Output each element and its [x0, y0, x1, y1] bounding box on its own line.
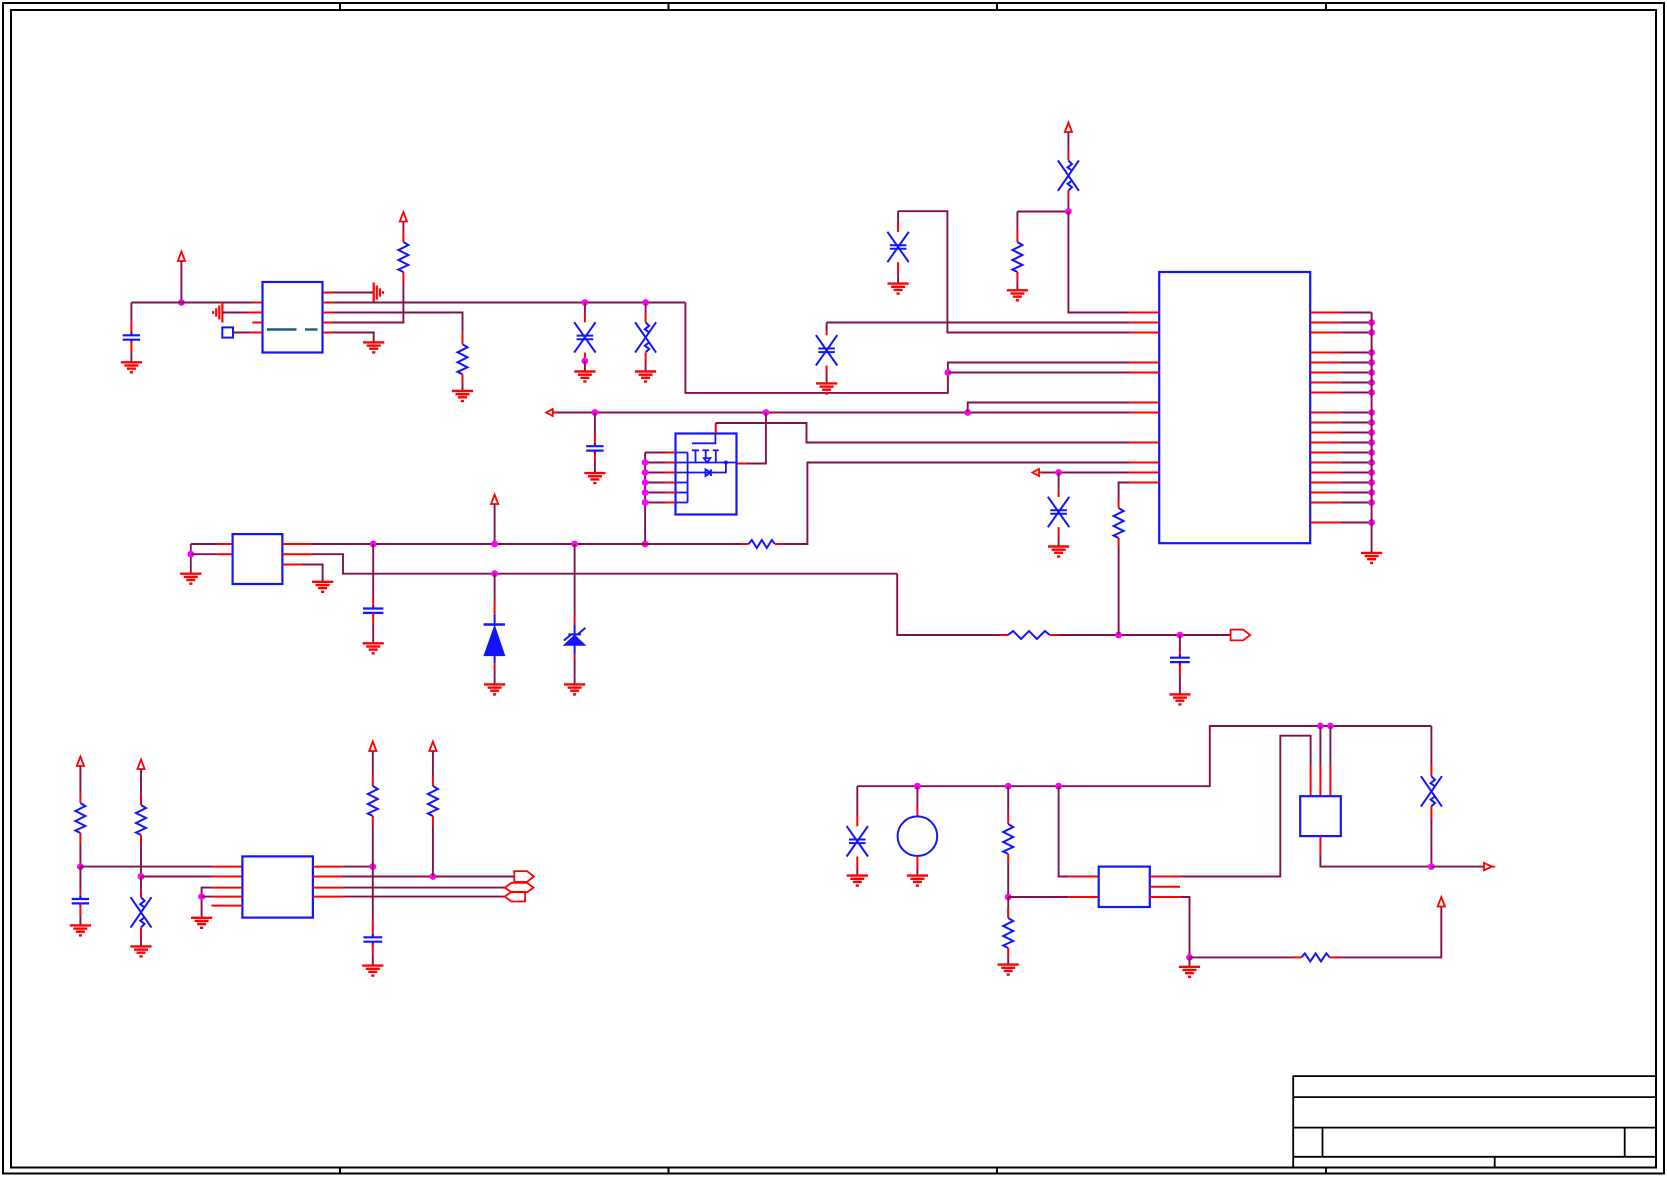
wire [79, 766, 81, 793]
wire [372, 955, 374, 965]
wire [1340, 372, 1371, 374]
node junction [1186, 954, 1193, 961]
wire Q1 left bus [644, 453, 646, 545]
node junction [1327, 723, 1334, 730]
ground [70, 925, 91, 935]
pin U6 right 2 [1310, 322, 1340, 324]
resistor R2 [462, 333, 464, 345]
wire [1340, 492, 1371, 494]
capacitor C1 [130, 322, 132, 334]
resistor R7 [79, 793, 81, 803]
pin U6 right 10 [1310, 422, 1340, 424]
wire [131, 302, 252, 304]
resistor R11 [1007, 814, 1009, 824]
pin U1.2 [247, 312, 263, 314]
wire net lower bus [312, 554, 897, 574]
frame zone tick top 1 [339, 3, 341, 10]
wire [584, 361, 586, 371]
wire [130, 352, 132, 362]
wire [333, 292, 374, 294]
pin U3.8 [313, 876, 343, 878]
node junction [1368, 329, 1375, 336]
node junction [763, 409, 770, 416]
wire [1180, 897, 1189, 957]
pin U2.2 [218, 553, 233, 555]
ground [180, 574, 201, 584]
ground [312, 582, 333, 592]
node junction [1055, 783, 1062, 790]
node junction [1368, 429, 1375, 436]
wire [1431, 866, 1482, 868]
wire [1059, 786, 1069, 876]
wire [574, 544, 576, 615]
ground [907, 876, 928, 886]
node junction [178, 299, 185, 306]
capacitor C4 not fitted [897, 222, 899, 232]
IC U5 [1300, 796, 1341, 836]
ground [1169, 694, 1190, 704]
IC U3 [242, 856, 313, 917]
ground [998, 965, 1019, 975]
node junction [642, 459, 649, 466]
node junction [1065, 208, 1072, 215]
pin U3.5 no-connect stub [212, 905, 243, 907]
title block [1293, 1076, 1656, 1167]
node junction [592, 409, 599, 416]
node junction [1317, 723, 1324, 730]
wire [1329, 726, 1331, 766]
node junction [642, 479, 649, 486]
wire [432, 751, 434, 776]
node junction [1005, 894, 1012, 901]
pin U1.8 [323, 292, 334, 294]
frame zone tick bottom 4 [1325, 1168, 1327, 1174]
node junction [430, 873, 437, 880]
pin U5.1 [1310, 766, 1312, 797]
wire [1340, 322, 1371, 324]
wire [79, 867, 81, 890]
node junction [491, 570, 498, 577]
wire [372, 544, 374, 599]
resistor R13 [1293, 956, 1302, 958]
node junction [1055, 469, 1062, 476]
power arrow VCC1 [178, 252, 185, 262]
wire [1179, 635, 1181, 650]
wire [1320, 856, 1431, 867]
IC U1 [263, 282, 323, 353]
IC U6 [1159, 272, 1310, 543]
IC U4 [1099, 867, 1150, 907]
pin Q1 s5 [645, 492, 665, 494]
pin U4.5 no-connect stub [1150, 886, 1180, 888]
input port flag C [505, 892, 525, 902]
wire [1017, 211, 1068, 213]
node junction [964, 409, 971, 416]
node junction [1115, 632, 1122, 639]
pin Q1 gate [715, 423, 717, 434]
pin U6 left 11 [1129, 482, 1159, 484]
wire [1430, 726, 1432, 766]
wire [594, 413, 596, 435]
wire [1189, 957, 1191, 966]
capacitor C14 not fitted [856, 816, 858, 826]
wire [1118, 547, 1120, 635]
wire [141, 876, 212, 878]
node junction [1368, 449, 1375, 456]
pin U3.3 [212, 887, 242, 889]
wire [827, 322, 1129, 324]
node junction [138, 873, 145, 880]
node junction [914, 783, 921, 790]
wire [79, 843, 81, 867]
capacitor C7 [594, 434, 596, 444]
transistor Q1 outline box [676, 434, 737, 515]
pin U5.3 [1329, 766, 1331, 797]
ground [635, 372, 656, 382]
wire [1058, 538, 1060, 546]
wire [1340, 452, 1371, 454]
frame zone tick top 2 [668, 3, 670, 10]
wire [140, 877, 142, 892]
frame zone tick bottom 1 [339, 1168, 341, 1174]
wire [333, 333, 374, 343]
wire [1180, 736, 1310, 877]
wire [1067, 201, 1069, 212]
node junction [1368, 519, 1375, 526]
wire net VDD bus [312, 543, 740, 545]
capacitor C8 [372, 599, 374, 609]
ground [584, 473, 605, 483]
wire [140, 938, 142, 946]
node junction [77, 863, 84, 870]
ground [1007, 290, 1028, 300]
ground [363, 643, 384, 653]
pin U3.2 [212, 876, 242, 878]
pin U1.5 [323, 322, 334, 324]
wire net VOUT bus [333, 302, 685, 304]
ground [847, 876, 868, 886]
pin U6 right 3 [1310, 332, 1340, 334]
wire [1179, 676, 1181, 694]
wire [897, 574, 1000, 635]
wire [494, 574, 496, 600]
wire [1058, 473, 1060, 491]
wire [1008, 896, 1068, 898]
pin U6 right 7 [1310, 382, 1340, 384]
wire [222, 312, 247, 314]
wire [856, 868, 858, 875]
wire [574, 660, 576, 684]
frame zone tick bottom 2 [668, 1168, 670, 1174]
wire [948, 372, 1129, 374]
pin U4.1 [1068, 876, 1099, 878]
power arrow VCC4 [491, 495, 498, 505]
pin Q1 s1 [645, 452, 665, 454]
pin Q1 s4 [645, 482, 665, 484]
node junction [1368, 369, 1375, 376]
diode D1 [494, 600, 496, 615]
ground [888, 284, 909, 294]
pin U1.6 [323, 312, 334, 314]
input port arrow [546, 409, 553, 416]
wire [372, 867, 374, 920]
resistor R3 [1016, 232, 1018, 242]
wire [140, 845, 142, 877]
wire [302, 565, 323, 582]
pin U6 right 16 [1310, 482, 1340, 484]
wire [494, 504, 496, 544]
node junction [1368, 319, 1375, 326]
node junction [369, 863, 376, 870]
wire [1340, 432, 1371, 434]
resistor R1 [402, 272, 404, 282]
wire [202, 896, 213, 898]
resistor R6 [1118, 538, 1120, 547]
wire [372, 826, 374, 867]
bom option box [222, 327, 233, 337]
pin U2.3 [282, 564, 302, 566]
wire net OSC bus [857, 726, 1431, 786]
ground [484, 684, 505, 694]
capacitor C2 not fitted [584, 313, 586, 322]
node junction [370, 541, 377, 548]
output port arrow [1482, 866, 1484, 868]
wire [1067, 132, 1069, 150]
IC U2 [233, 534, 283, 584]
wire [898, 211, 1129, 332]
wire [494, 670, 496, 684]
capacitor C10 not fitted [1058, 490, 1060, 497]
wire [1058, 634, 1231, 636]
wire [1007, 864, 1009, 897]
pin U3.6 [313, 896, 343, 898]
wire [343, 887, 505, 889]
wire [180, 261, 182, 303]
capacitor C12 not fitted [140, 891, 142, 897]
wire U6 right ground bus [1371, 313, 1373, 553]
wire [402, 222, 404, 233]
wire [968, 403, 1129, 413]
wire [1119, 483, 1129, 500]
ground [452, 391, 473, 401]
node junction [1368, 389, 1375, 396]
pin Q1 s2 [645, 462, 665, 464]
pin U6 left 1 [1129, 312, 1159, 314]
node junction [945, 369, 952, 376]
wire [191, 543, 218, 545]
wire [130, 303, 132, 322]
wire [1340, 332, 1371, 334]
pin U6 left 9 [1129, 462, 1159, 464]
wire [1340, 442, 1371, 444]
pin Q1 s3 [645, 472, 665, 474]
wire [1340, 412, 1371, 414]
pin U1.3 no-connect stub [252, 322, 262, 324]
wire [783, 463, 1129, 545]
pin U6 right 8 [1310, 392, 1340, 394]
wire [645, 303, 647, 314]
wire [1340, 522, 1371, 524]
pin U6 left 10 [1129, 472, 1159, 474]
pin U6 right 1 [1310, 312, 1340, 314]
wire [1340, 382, 1371, 384]
pin U3.9 [313, 866, 343, 868]
pin U1.1 [253, 302, 263, 304]
wire [1340, 362, 1371, 364]
pin U6 left 8 [1129, 442, 1159, 444]
pin U1.9 [323, 332, 334, 334]
ground [121, 362, 142, 372]
wire [916, 786, 918, 806]
U1 hidden text dashes [267, 328, 318, 330]
wire [826, 323, 828, 331]
pin U6 right 13 [1310, 452, 1340, 454]
wire [584, 303, 586, 314]
resistor R9 [372, 776, 374, 786]
wire [1007, 786, 1009, 814]
node junction [1005, 783, 1012, 790]
wire [333, 282, 403, 323]
wire [1340, 502, 1371, 504]
node junction [642, 469, 649, 476]
wire [191, 553, 218, 555]
pin U4.6 [1150, 876, 1181, 878]
node junction [1368, 459, 1375, 466]
wire [746, 413, 766, 464]
node junction [1368, 349, 1375, 356]
pin U4.2 [1068, 896, 1099, 898]
chassis ground left of U1 [213, 303, 222, 323]
wire [343, 866, 373, 868]
output port flag [1231, 630, 1251, 641]
power arrow VCC6 [137, 760, 144, 770]
pin U5.2 [1319, 766, 1321, 797]
wire [1430, 818, 1432, 867]
frame zone tick top 3 [996, 3, 998, 10]
pin Q1 drain [737, 463, 747, 465]
pin U3.4 [212, 896, 242, 898]
wire [333, 313, 463, 333]
pin U2.1 [218, 543, 233, 545]
pin U6 left 2 [1129, 322, 1159, 324]
ground [362, 966, 383, 976]
pin U6 right 17 [1310, 492, 1340, 494]
node junction [198, 893, 205, 900]
wire [1190, 956, 1293, 958]
wire [1340, 462, 1371, 464]
resistor R4 [741, 543, 749, 545]
pin U6 left 4 [1129, 362, 1159, 364]
wire [1340, 392, 1371, 394]
ground [564, 684, 585, 694]
resistor R8 [140, 795, 142, 805]
wire [594, 461, 596, 473]
power arrow VCC7 [369, 742, 376, 752]
output port flag A [514, 871, 534, 882]
pin U1.7 [323, 302, 334, 304]
node junction [1177, 632, 1184, 639]
capacitor C6 not fitted [826, 330, 828, 335]
pin U2.5 [282, 543, 312, 545]
node junction [1368, 439, 1375, 446]
pin U3.7 [313, 887, 343, 889]
wire [826, 373, 828, 383]
wire [1339, 907, 1442, 958]
power arrow VCC5 [77, 757, 84, 767]
wire [1043, 472, 1130, 474]
power arrow VCC3 [1065, 123, 1072, 133]
pin U6 right 15 [1310, 472, 1340, 474]
ground [1361, 553, 1382, 563]
wire [140, 769, 142, 795]
node junction [1368, 359, 1375, 366]
node junction [1368, 489, 1375, 496]
wire [343, 896, 505, 898]
pin U2.4 [282, 553, 312, 555]
node junction [582, 358, 589, 365]
capacitor C11 [79, 890, 81, 899]
ground [1179, 967, 1200, 977]
node junction [1368, 469, 1375, 476]
wire [432, 826, 434, 877]
transistor Q1 mosfet symbol [676, 434, 737, 503]
pin U6 right 5 [1310, 362, 1340, 364]
power arrow VCC2 [400, 212, 407, 222]
node junction [642, 499, 649, 506]
node junction [1428, 863, 1435, 870]
node junction [1368, 479, 1375, 486]
wire [1340, 482, 1371, 484]
power arrow VCC8 [429, 742, 436, 752]
node junction [642, 299, 649, 306]
ground [191, 918, 212, 928]
node junction [1368, 409, 1375, 416]
ground [574, 372, 595, 382]
capacitor C3 not fitted [645, 313, 647, 322]
wire [1016, 212, 1018, 233]
wire [372, 751, 374, 776]
frame zone tick bottom 3 [996, 1168, 998, 1174]
pin U6 left 7 [1129, 412, 1159, 414]
node junction [1368, 419, 1375, 426]
wire [462, 384, 464, 391]
wire [1068, 212, 1129, 313]
wire [1007, 958, 1009, 964]
resistor R10 [432, 776, 434, 786]
node junction [642, 489, 649, 496]
frame zone tick top 4 [1325, 3, 1327, 10]
ground [1048, 547, 1069, 557]
pin U6 left 3 [1129, 332, 1159, 334]
node junction [1368, 379, 1375, 386]
wire [1340, 312, 1371, 314]
chassis ground right of U1 [374, 283, 383, 303]
pin U6 right 4 [1310, 352, 1340, 354]
wire [897, 211, 899, 222]
bidirectional port flag B [505, 883, 534, 892]
node junction [1368, 499, 1375, 506]
resistor R12 [1007, 897, 1009, 918]
pin U6 right 11 [1310, 432, 1340, 434]
pin U6 right 19 [1310, 522, 1340, 524]
pin U3.1 [212, 866, 242, 868]
wire [372, 623, 374, 643]
wire [233, 332, 250, 334]
wire [1340, 422, 1371, 424]
capacitor C13 [372, 920, 374, 935]
ground [130, 946, 151, 956]
pin U4.4 [1150, 896, 1181, 898]
